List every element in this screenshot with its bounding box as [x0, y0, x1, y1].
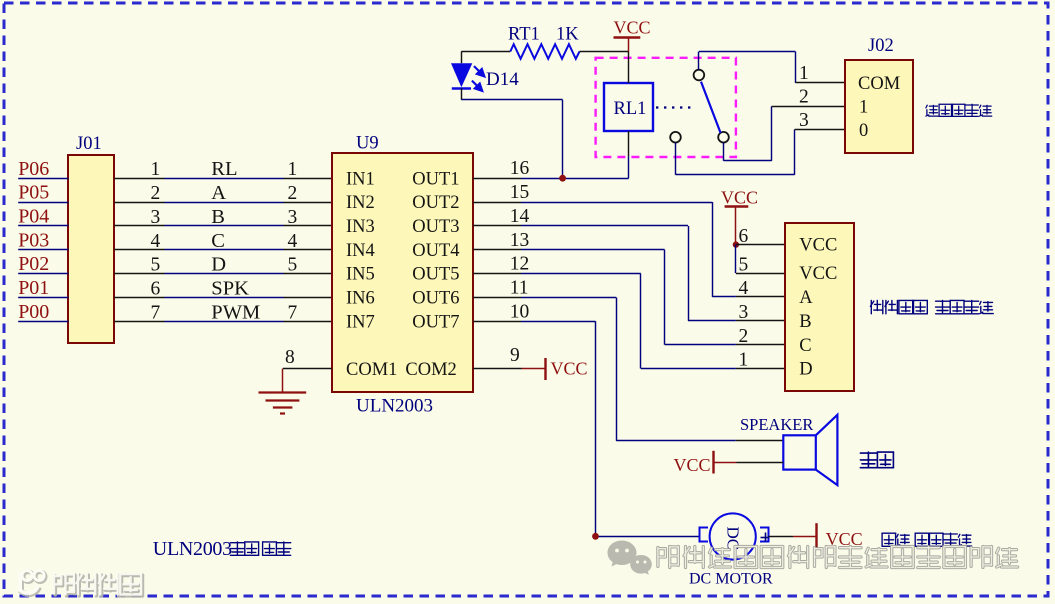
svg-text:1: 1	[151, 159, 161, 180]
wire J01 pin 6 to U9 IN6 (net SPK)	[114, 277, 332, 299]
svg-text:COM2: COM2	[405, 360, 456, 380]
wire OUT6 to speaker	[616, 297, 783, 440]
power VCC (stepper)	[721, 188, 758, 245]
ground	[259, 369, 307, 414]
svg-text:OUT5: OUT5	[412, 265, 459, 285]
svg-text:IN6: IN6	[346, 289, 375, 309]
connector J02	[845, 36, 913, 153]
svg-text:OUT4: OUT4	[412, 241, 459, 261]
svg-text:4: 4	[288, 231, 298, 252]
wire J01 pin 2 to U9 IN2 (net A)	[114, 182, 332, 204]
node P02	[18, 253, 68, 275]
watermark text dashukuajing	[0, 0, 1, 1]
svg-text:3: 3	[799, 110, 809, 131]
svg-text:11: 11	[510, 277, 529, 298]
svg-text:IN5: IN5	[346, 265, 375, 285]
wire U9 OUT7 pin 10	[473, 301, 596, 322]
wire U9 OUT3 pin 14	[473, 206, 688, 227]
svg-text:D14: D14	[486, 69, 519, 90]
svg-text:D: D	[211, 254, 226, 276]
svg-text:ULN2003: ULN2003	[356, 396, 433, 417]
wire U9 OUT2 pin 15	[473, 182, 712, 203]
label stepper motor drive interface	[870, 300, 882, 313]
svg-text:RL1: RL1	[614, 99, 647, 119]
svg-text:RT1: RT1	[508, 25, 540, 45]
svg-text:7: 7	[288, 302, 298, 323]
svg-text:12: 12	[510, 254, 530, 275]
svg-text:15: 15	[510, 182, 530, 203]
wire relay NC to J02 pin3	[676, 110, 845, 175]
motor M1 DC MOTOR	[689, 513, 773, 587]
svg-text:VCC: VCC	[799, 264, 837, 284]
wire RL1 coil to OUT1 net	[628, 131, 630, 178]
svg-text:COM1: COM1	[346, 360, 397, 380]
wire OUT7 to DC motor	[596, 321, 700, 536]
svg-text:14: 14	[510, 206, 530, 227]
title ULN2003 driver circuit	[153, 538, 232, 560]
svg-text:IN1: IN1	[346, 169, 375, 189]
svg-text:PWM: PWM	[211, 301, 260, 323]
svg-text:5: 5	[288, 255, 298, 276]
svg-text:D: D	[799, 360, 812, 380]
resistor RT1 1K	[508, 25, 580, 59]
svg-text:IN7: IN7	[346, 312, 375, 332]
svg-text:VCC: VCC	[674, 455, 711, 475]
wire LED top to resistor	[461, 52, 510, 64]
svg-text:COM: COM	[858, 74, 900, 94]
wire OUT5 to stepper pin 1	[641, 274, 785, 369]
op IC U9 ULN2003	[332, 134, 473, 417]
svg-text:A: A	[799, 288, 813, 308]
svg-text:1: 1	[288, 159, 298, 180]
svg-text:VCC: VCC	[799, 236, 837, 256]
node P03	[18, 229, 68, 251]
svg-text:C: C	[211, 230, 225, 252]
svg-text:1: 1	[859, 98, 868, 118]
wire OUT4 to stepper pin 2	[665, 250, 785, 345]
wire OUT3 to stepper pin 3	[688, 226, 785, 321]
svg-text:16: 16	[510, 158, 530, 179]
relay switch common contact	[694, 70, 705, 81]
wire relay common to J02 pin1	[699, 52, 845, 85]
svg-text:J02: J02	[868, 36, 894, 56]
svg-text:VCC: VCC	[614, 18, 651, 38]
svg-text:3: 3	[739, 302, 749, 323]
svg-text:OUT1: OUT1	[412, 169, 459, 189]
svg-text:J01: J01	[76, 134, 102, 154]
wire relay NO to J02 pin2	[724, 87, 845, 161]
speaker LS	[740, 415, 837, 485]
svg-text:ULN2003: ULN2003	[153, 538, 232, 560]
svg-text:7: 7	[151, 302, 161, 323]
svg-text:B: B	[211, 206, 225, 228]
svg-text:P06: P06	[18, 158, 49, 180]
relay coupling dotted line	[656, 106, 694, 108]
relay dashed outline	[596, 58, 736, 157]
wire OUT2 to stepper pin 4	[712, 202, 784, 297]
svg-text:IN2: IN2	[346, 193, 375, 213]
wire VCC to RL1 coil	[628, 52, 630, 84]
wire U9 OUT6 pin 11	[473, 277, 616, 298]
wire U9 pin 9 (COM2)	[473, 345, 522, 369]
svg-text:SPK: SPK	[211, 277, 249, 299]
junction OUT1/LED	[559, 175, 566, 182]
svg-text:5: 5	[739, 254, 749, 275]
svg-text:OUT6: OUT6	[412, 289, 459, 309]
svg-text:OUT2: OUT2	[412, 193, 459, 213]
relay coil RL1	[604, 83, 653, 131]
wire J01 pin 1 to U9 IN1 (net RL)	[114, 158, 332, 180]
svg-text:P05: P05	[18, 182, 49, 204]
junction motor node	[592, 533, 599, 540]
label DC motor interface	[882, 533, 896, 546]
relay switch NO contact	[718, 132, 729, 143]
wire J01 pin 5 to U9 IN5 (net D)	[114, 254, 332, 276]
wire VCC to stepper pin5	[736, 245, 785, 274]
node P01	[18, 277, 68, 299]
svg-text:IN4: IN4	[346, 241, 375, 261]
svg-text:8: 8	[285, 347, 295, 368]
connector stepper motor J (VCC VCC A B C D)	[785, 223, 854, 391]
connector J01	[68, 134, 114, 343]
svg-text:6: 6	[739, 226, 749, 247]
svg-text:VCC: VCC	[551, 359, 588, 379]
LED D14	[451, 63, 519, 91]
svg-text:10: 10	[510, 301, 530, 322]
wire U9 OUT4 pin 13	[473, 230, 665, 251]
svg-text:P03: P03	[18, 229, 49, 251]
node P04	[18, 206, 68, 228]
svg-text:U9: U9	[356, 134, 379, 154]
svg-text:DC MOTOR: DC MOTOR	[689, 571, 773, 588]
wire U9 pin 8 (COM1)	[283, 347, 332, 368]
watermark company name	[658, 547, 678, 568]
svg-text:P02: P02	[18, 253, 49, 275]
wire VCC to stepper pin6	[736, 244, 785, 246]
power VCC (speaker)	[674, 451, 737, 475]
power VCC (pin9)	[522, 358, 588, 380]
node P00	[18, 301, 68, 323]
svg-text:2: 2	[799, 87, 809, 108]
power VCC (motor)	[793, 523, 863, 549]
svg-text:1: 1	[739, 350, 749, 371]
svg-text:P01: P01	[18, 277, 49, 299]
relay switch NC contact	[670, 132, 681, 143]
wire VCC to speaker	[737, 462, 784, 464]
label relay interface	[926, 105, 938, 116]
svg-text:P04: P04	[18, 206, 49, 228]
svg-text:OUT3: OUT3	[412, 217, 459, 237]
wire U9 OUT5 pin 12	[473, 254, 641, 275]
wire motor to VCC	[769, 536, 794, 538]
svg-text:3: 3	[151, 207, 161, 228]
svg-text:P00: P00	[18, 301, 49, 323]
watermark logo (bottom-left)	[20, 571, 45, 595]
wire J01 pin 7 to U9 IN7 (net PWM)	[114, 301, 332, 323]
svg-text:A: A	[211, 182, 226, 204]
wire resistor to VCC node	[580, 51, 629, 53]
svg-text:3: 3	[288, 207, 298, 228]
wire J01 pin 4 to U9 IN4 (net C)	[114, 230, 332, 252]
svg-text:9: 9	[510, 345, 520, 366]
wire J01 pin 3 to U9 IN3 (net B)	[114, 206, 332, 228]
svg-text:OUT7: OUT7	[412, 312, 459, 332]
power VCC (top)	[614, 18, 651, 52]
wire LED cathode to OUT1 net	[461, 88, 562, 178]
svg-text:RL: RL	[211, 158, 237, 180]
svg-text:SPEAKER: SPEAKER	[740, 415, 813, 434]
svg-text:4: 4	[151, 231, 161, 252]
svg-text:2: 2	[739, 326, 749, 347]
junction stepper VCC	[733, 241, 739, 247]
svg-text:1: 1	[799, 63, 809, 84]
svg-text:C: C	[799, 336, 811, 356]
svg-text:B: B	[799, 312, 811, 332]
watermark wechat icon	[608, 541, 652, 575]
node P05	[18, 182, 68, 204]
svg-text:0: 0	[859, 121, 868, 141]
svg-text:2: 2	[288, 183, 298, 204]
relay switch blade	[701, 82, 721, 133]
svg-text:5: 5	[151, 255, 161, 276]
svg-text:1K: 1K	[556, 25, 579, 45]
svg-text:VCC: VCC	[721, 188, 758, 208]
svg-text:13: 13	[510, 230, 530, 251]
node P06	[18, 158, 68, 180]
svg-text:6: 6	[151, 278, 161, 299]
label speaker (Chinese)	[860, 452, 876, 468]
wire U9 OUT1 pin 16	[473, 158, 629, 179]
svg-text:IN3: IN3	[346, 217, 375, 237]
svg-text:2: 2	[151, 183, 161, 204]
svg-text:4: 4	[739, 278, 749, 299]
